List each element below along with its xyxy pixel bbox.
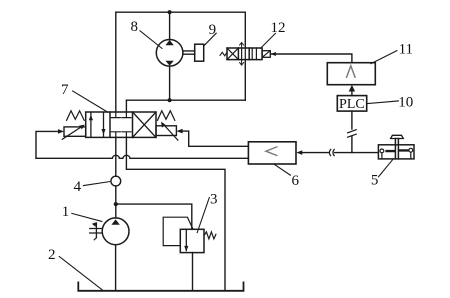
wire valve 7 port B down to tank	[126, 137, 225, 290]
svg-text:PLC: PLC	[339, 97, 365, 112]
relief valve 3 pilot line	[163, 217, 193, 245]
node junction top of motor branch	[168, 10, 172, 14]
wire PLC down	[351, 111, 353, 129]
amplifier gain symbol	[347, 66, 355, 77]
valve 7 right cell crossed arrows	[133, 112, 157, 137]
wire top rail	[116, 11, 246, 13]
pump 1	[102, 218, 129, 245]
shaft pump8 to actuator9	[183, 51, 195, 54]
leader 6	[274, 164, 290, 175]
wire loop bottom rail	[126, 99, 245, 101]
valve 7 left solenoid	[64, 127, 86, 136]
svg-text:11: 11	[399, 41, 413, 57]
leader 1	[72, 213, 102, 221]
valve 7 left spring	[67, 111, 85, 121]
break in PLC wire	[348, 130, 357, 138]
svg-text:5: 5	[371, 172, 379, 188]
svg-text:7: 7	[61, 82, 69, 98]
wire right leg lower	[244, 60, 246, 101]
leader 4	[83, 182, 109, 186]
wire motor 8 upper	[169, 12, 171, 39]
pump 1 shaft	[90, 223, 103, 237]
valve 12 spring	[220, 52, 227, 56]
comparator symbol	[266, 147, 277, 156]
svg-text:6: 6	[292, 173, 300, 189]
actuator 9	[195, 44, 204, 61]
leader 2	[59, 257, 103, 291]
wire solenoid12 to amplifier11	[271, 54, 352, 63]
relief valve 3 spring	[204, 232, 216, 239]
valve 7 left cell arrows	[91, 113, 104, 138]
wire motor 8 lower	[169, 66, 171, 100]
wire left leg (valve 7 port A up)	[115, 12, 117, 112]
leader 3	[197, 198, 209, 233]
wire left pilot to solenoid	[36, 131, 59, 158]
valve 12 port arrow down	[240, 60, 244, 66]
svg-text:3: 3	[210, 192, 218, 208]
svg-text:10: 10	[398, 94, 413, 110]
svg-text:1: 1	[62, 204, 70, 220]
wire U6 to sensor5	[302, 152, 378, 154]
relief valve 3	[180, 229, 204, 252]
wire feedback line with crossovers	[36, 155, 248, 158]
valve 7 main boxes	[86, 112, 156, 137]
wire valve 7 port A down	[115, 137, 117, 176]
leader 7	[73, 91, 108, 112]
node junction bottom of motor branch	[168, 98, 172, 102]
leader 11	[371, 51, 397, 64]
valve 12 solenoid	[262, 51, 270, 58]
pump 8	[156, 40, 183, 67]
leader 5	[378, 159, 393, 177]
amplifier U11 box	[327, 63, 375, 85]
node junction pump outlet	[114, 202, 118, 206]
leader 12	[261, 33, 276, 48]
leader 9	[204, 33, 216, 46]
wire pump outlet to relief valve 3	[116, 204, 192, 229]
leader 8	[140, 31, 162, 49]
leader 10	[368, 101, 398, 104]
break in sensor wire	[329, 149, 334, 155]
valve 7 right solenoid	[156, 126, 176, 136]
wire valve 7 port B up	[125, 100, 127, 112]
wire relief valve 3 to tank	[192, 253, 194, 291]
valve 7 right spring	[158, 111, 175, 121]
svg-text:4: 4	[74, 179, 82, 195]
valve 12	[227, 48, 262, 60]
svg-text:2: 2	[48, 247, 56, 263]
valve 12 port arrow up	[240, 43, 244, 49]
valve 7 centre cell blocked ports	[111, 112, 131, 118]
svg-text:9: 9	[209, 22, 217, 38]
sensor 5	[378, 135, 414, 159]
wire right solenoid to U6	[182, 131, 248, 146]
tank 2	[78, 282, 243, 290]
svg-text:8: 8	[131, 19, 139, 35]
PLC U10 box	[337, 96, 366, 112]
gauge 4	[111, 176, 121, 186]
wire right leg upper	[244, 12, 246, 48]
wire PLC to amplifier arrow	[351, 91, 353, 96]
wire gauge to pump	[115, 186, 117, 218]
comparator U6 box	[248, 142, 296, 164]
wire pump 1 to tank	[115, 245, 117, 291]
svg-text:12: 12	[271, 20, 286, 36]
